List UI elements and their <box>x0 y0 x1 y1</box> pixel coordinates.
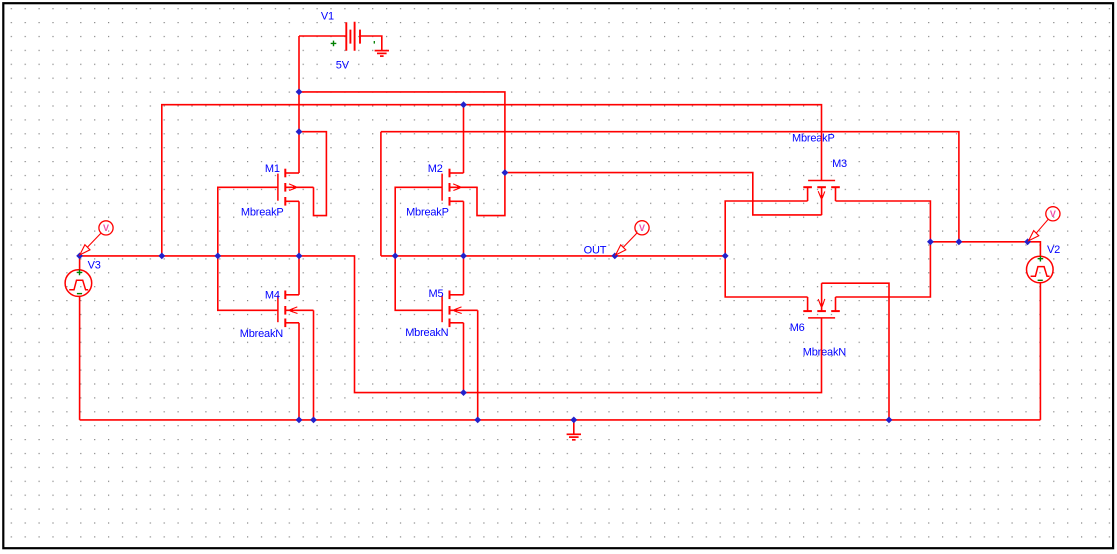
node junction M6 bulk ground <box>886 417 893 424</box>
node junction input rail at rail B <box>158 253 165 260</box>
V2 plus polarity mark <box>1038 256 1044 262</box>
wire VDD vertical to M1 drain <box>298 36 300 173</box>
svg-text:M4: M4 <box>265 289 280 301</box>
svg-text:5V: 5V <box>336 60 350 72</box>
wire output rail C <box>381 132 959 242</box>
wire M5 bulk drop to ground rail <box>477 310 479 420</box>
svg-text:V: V <box>639 223 645 233</box>
svg-text:M5: M5 <box>429 288 444 300</box>
junction M1 bulk tap <box>296 128 303 135</box>
svg-text:V1: V1 <box>321 10 334 22</box>
wire M4 bulk drop to ground rail <box>313 310 315 420</box>
wire M2 M5 gate tie <box>395 187 442 310</box>
svg-text:OUT: OUT <box>584 244 607 256</box>
svg-text:MbreakN: MbreakN <box>240 328 283 340</box>
transistor M1 MbreakP <box>278 169 314 206</box>
svg-text:MbreakN: MbreakN <box>405 327 448 339</box>
wire V2 bottom to ground rail <box>1039 283 1041 420</box>
transistor M5 MbreakN <box>442 291 478 328</box>
ground at battery V1 <box>375 50 389 52</box>
ground symbol at bottom rail <box>567 433 581 435</box>
svg-text:M6: M6 <box>790 322 805 334</box>
wire VDD branch to M3 bulk <box>505 173 822 215</box>
node junction M2 drain on rail B <box>460 101 467 108</box>
node junction M4 source ground <box>296 417 303 424</box>
node junction ground symbol <box>570 417 577 424</box>
svg-text:MbreakP: MbreakP <box>406 206 449 218</box>
wire input rail V3 to M6 gate <box>80 256 822 393</box>
voltage probe at OUT <box>616 221 650 255</box>
svg-text:MbreakP: MbreakP <box>792 133 835 145</box>
voltage probe at V3 <box>80 221 113 255</box>
wire M6 bulk to ground rail <box>822 283 889 420</box>
svg-text:M2: M2 <box>428 163 443 175</box>
node junction M5 source on feedback line <box>460 389 467 396</box>
V3 plus polarity mark <box>77 270 83 276</box>
node junction rail C on right rail <box>956 238 963 245</box>
transistor M6 MbreakN <box>803 283 840 318</box>
wire M1 bulk loop <box>299 132 326 216</box>
svg-text:V3: V3 <box>88 260 101 272</box>
node OUT junction <box>611 253 618 260</box>
wire M3 drain to M6 drain OUT tie <box>725 201 807 297</box>
wire ground stub at bottom rail <box>573 420 575 434</box>
svg-text:M3: M3 <box>832 158 847 170</box>
wire M1 source to M4 drain <box>298 201 300 294</box>
wire VDD rail to M2 bulk loop <box>299 92 505 216</box>
wire M4 source drop to ground rail <box>298 323 300 420</box>
V1 plus polarity mark <box>331 41 337 47</box>
node junction M1 source on input rail <box>296 253 303 260</box>
wire battery V1 negative to ground <box>360 36 382 50</box>
wire M3 source to M6 source tie <box>836 201 931 297</box>
wire V3 bottom to ground rail <box>79 296 81 420</box>
voltage probe at V2 <box>1029 207 1060 241</box>
node junction V3 input <box>76 253 83 260</box>
node junction M3 M6 sources right rail <box>927 238 934 245</box>
node junction M2 source on output rail <box>460 253 467 260</box>
svg-text:M1: M1 <box>265 163 280 175</box>
voltage source V3 <box>65 270 92 297</box>
wire output mid rail OUT <box>381 132 725 256</box>
transistor M3 MbreakP <box>803 181 840 216</box>
V1 minus polarity mark <box>373 41 375 44</box>
transistor M4 MbreakN <box>278 291 314 328</box>
junction VDD to M3 bulk branch <box>502 169 509 176</box>
svg-text:V: V <box>1050 209 1056 219</box>
wire right rail to V2 <box>930 242 1040 256</box>
wire M2 drain drop <box>463 105 465 173</box>
transistor M2 MbreakP <box>442 169 478 206</box>
battery V1 <box>346 22 360 51</box>
V3 minus polarity mark <box>77 293 82 295</box>
node junction M2 M5 gates on output rail <box>392 253 399 260</box>
wire battery V1 positive to VDD drop <box>299 35 346 37</box>
node junction M4 bulk ground <box>310 417 317 424</box>
wire ground rail bottom <box>80 419 1041 421</box>
wire M2 source to M5 drain <box>463 201 465 294</box>
node junction M5 bulk ground <box>474 417 481 424</box>
voltage source V2 <box>1027 256 1054 283</box>
node junction V2 probe point <box>1024 238 1031 245</box>
svg-text:MbreakN: MbreakN <box>803 347 846 359</box>
node junction output at M3 M6 drains <box>722 253 729 260</box>
svg-text:V2: V2 <box>1047 244 1060 256</box>
junction VDD at M1 drain rail <box>296 89 303 96</box>
node junction M1 M4 gates <box>214 253 221 260</box>
wire V3 top stub <box>79 256 81 270</box>
svg-text:V: V <box>103 223 109 233</box>
wire M1 M4 gate tie <box>218 187 278 310</box>
V2 minus polarity mark <box>1038 279 1043 281</box>
wire M5 source drop <box>463 323 465 393</box>
svg-text:MbreakP: MbreakP <box>241 206 284 218</box>
wire rail B input to M2 drain and M3 gate <box>162 105 822 256</box>
